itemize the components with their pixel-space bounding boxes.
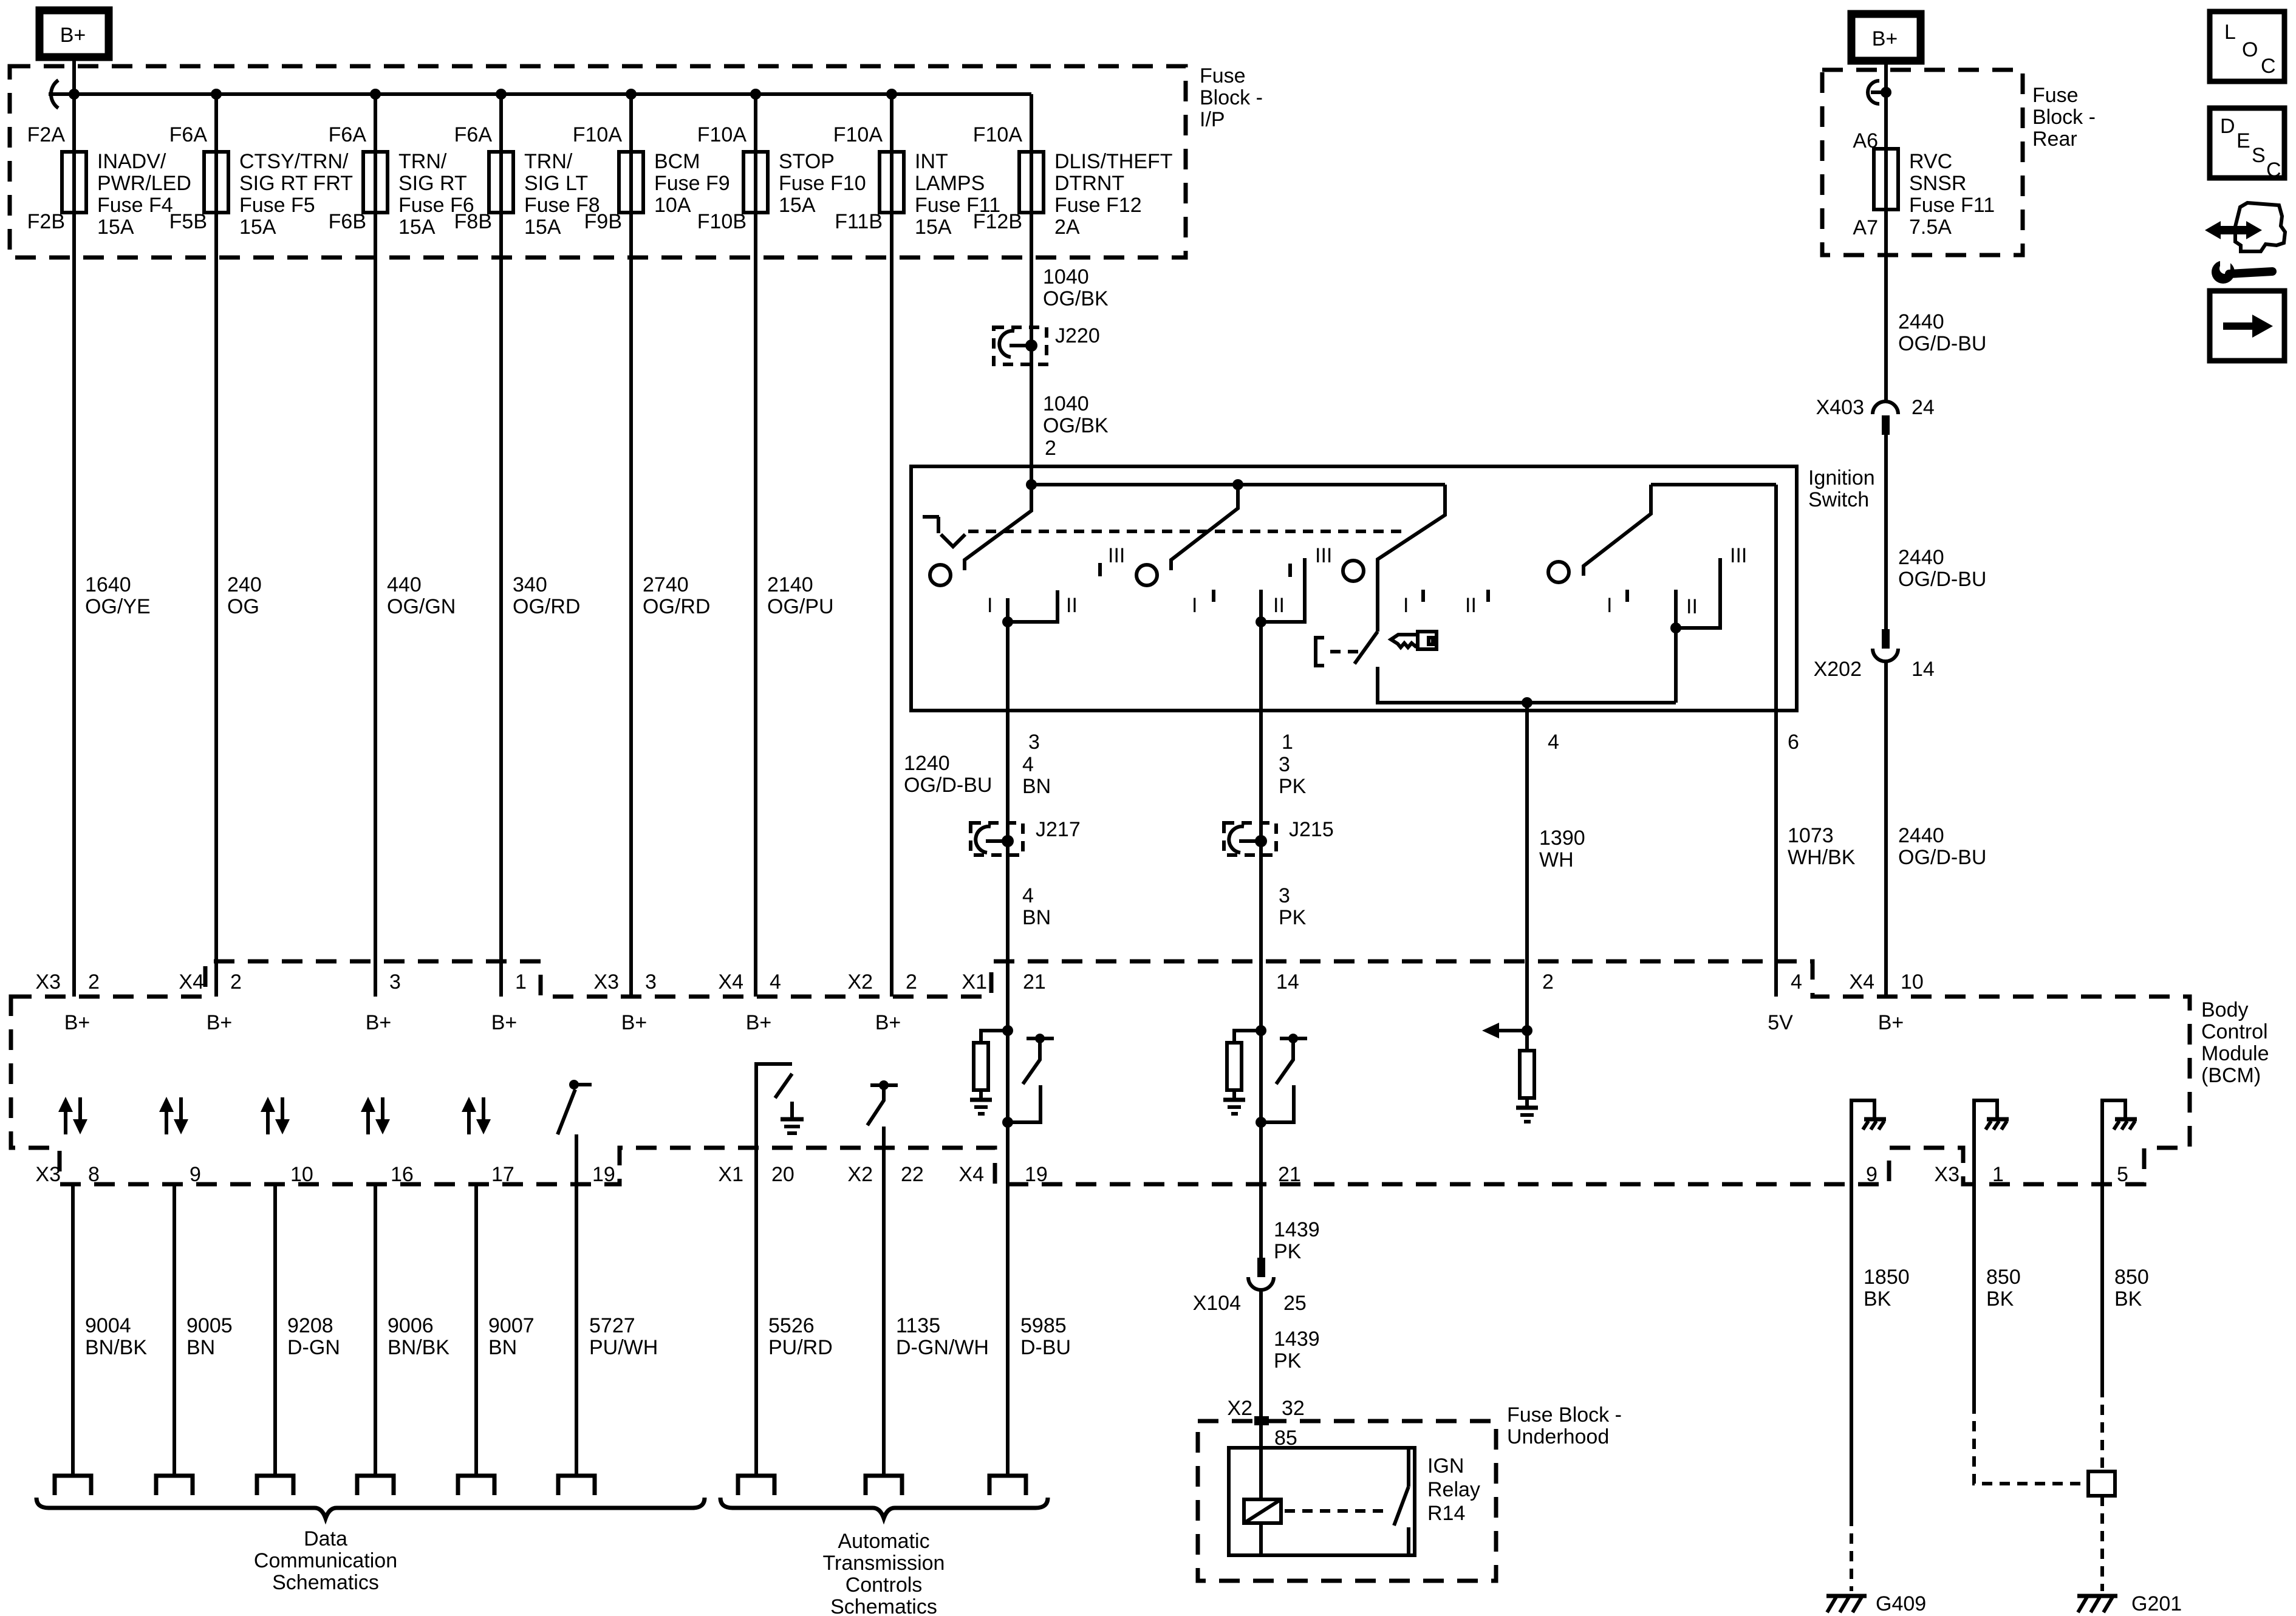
svg-text:F6A: F6A bbox=[329, 123, 367, 146]
svg-text:X4: X4 bbox=[179, 970, 204, 994]
svg-text:22: 22 bbox=[901, 1163, 924, 1186]
ground G409 bbox=[1826, 1592, 1926, 1615]
junction bbox=[626, 89, 637, 100]
terminal (pin 20 wire) bbox=[738, 1476, 774, 1495]
svg-text:2440: 2440 bbox=[1898, 824, 1944, 847]
svg-text:OG/GN: OG/GN bbox=[387, 595, 456, 618]
svg-text:L: L bbox=[2224, 21, 2236, 44]
svg-text:2440: 2440 bbox=[1898, 546, 1944, 569]
wire X403 to X202 bbox=[1884, 435, 1888, 629]
svg-text:F6A: F6A bbox=[454, 123, 493, 146]
svg-text:Body: Body bbox=[2201, 998, 2249, 1021]
svg-text:Fuse F12: Fuse F12 bbox=[1054, 194, 1142, 217]
svg-text:19: 19 bbox=[592, 1163, 615, 1186]
svg-text:F5B: F5B bbox=[169, 210, 207, 233]
svg-text:440: 440 bbox=[387, 573, 422, 596]
svg-text:850: 850 bbox=[1986, 1266, 2021, 1289]
fuse F6 TRN/SIG RT 15A bbox=[329, 123, 474, 239]
svg-text:Schematics: Schematics bbox=[830, 1595, 937, 1616]
svg-text:D-BU: D-BU bbox=[1020, 1336, 1071, 1359]
fuse F8 TRN/SIG LT 15A bbox=[454, 123, 600, 239]
S4 contact I tick bbox=[1625, 590, 1629, 602]
svg-text:X4: X4 bbox=[958, 1163, 984, 1186]
svg-text:X2: X2 bbox=[1227, 1397, 1252, 1420]
dashed continuation pin 5 to splice box bbox=[2100, 1387, 2104, 1471]
svg-text:4: 4 bbox=[1791, 970, 1802, 994]
svg-text:Schematics: Schematics bbox=[272, 1571, 379, 1594]
svg-text:1073: 1073 bbox=[1788, 824, 1834, 847]
rear feed hook bbox=[1868, 81, 1879, 104]
BCM switch above pin 19 bbox=[558, 1080, 592, 1134]
svg-text:B+: B+ bbox=[491, 1011, 518, 1034]
svg-text:G409: G409 bbox=[1876, 1592, 1926, 1615]
svg-text:PU/RD: PU/RD bbox=[768, 1336, 833, 1359]
svg-text:B+: B+ bbox=[366, 1011, 392, 1034]
svg-text:5985: 5985 bbox=[1020, 1314, 1067, 1337]
S4 contact III L bbox=[1676, 558, 1720, 628]
connector X104 pin 25 bbox=[1193, 1258, 1307, 1315]
splice J217 bbox=[971, 818, 1081, 855]
junction bbox=[1256, 616, 1266, 627]
svg-text:Communication: Communication bbox=[254, 1549, 397, 1572]
wire label 3 PK (upper) bbox=[1279, 753, 1307, 798]
B+ power symbol (right) bbox=[1851, 14, 1921, 61]
svg-text:J215: J215 bbox=[1289, 818, 1334, 841]
svg-text:4: 4 bbox=[1022, 753, 1034, 776]
svg-text:14: 14 bbox=[1276, 970, 1299, 994]
svg-text:BN: BN bbox=[186, 1336, 215, 1359]
svg-text:A7: A7 bbox=[1853, 216, 1878, 239]
BCM internal ground above pin X3-1 bbox=[1974, 1100, 2009, 1148]
wire label 2740 OG/RD bbox=[643, 573, 710, 618]
fuse F11 RVC SNSR 7.5A (rear) bbox=[1874, 149, 1995, 239]
ignition pin 6 wire to BCM 4 bbox=[1774, 485, 1778, 997]
svg-text:2: 2 bbox=[1045, 437, 1056, 460]
svg-text:B+: B+ bbox=[1878, 1011, 1904, 1034]
BCM top pin X3-3 bbox=[593, 970, 657, 1034]
svg-text:B+: B+ bbox=[64, 1011, 91, 1034]
wire label 3 PK (lower) bbox=[1279, 884, 1307, 929]
BCM bottom pin X2-22 bbox=[847, 1163, 923, 1186]
S4 top rail to pin 6 bbox=[1651, 483, 1776, 486]
accessory position symbol bbox=[923, 517, 965, 547]
connector X403 pin 24 bbox=[1816, 396, 1935, 435]
wire 9005 BN (pin 9) bbox=[173, 1184, 176, 1475]
svg-text:5727: 5727 bbox=[589, 1314, 635, 1337]
label Ignition Switch bbox=[1808, 466, 1875, 511]
junction bbox=[1002, 616, 1013, 627]
svg-text:5V: 5V bbox=[1768, 1011, 1793, 1034]
svg-text:OG/D-BU: OG/D-BU bbox=[1898, 846, 1986, 869]
svg-text:Fuse F5: Fuse F5 bbox=[239, 194, 315, 217]
switch S1 blade bbox=[965, 485, 1031, 570]
wire 1439 PK (X104 to fuse block underhood X2-32) bbox=[1259, 1290, 1263, 1499]
svg-text:6: 6 bbox=[1788, 731, 1799, 754]
svg-text:B+: B+ bbox=[207, 1011, 233, 1034]
svg-text:OG/RD: OG/RD bbox=[643, 595, 710, 618]
svg-text:9007: 9007 bbox=[488, 1314, 535, 1337]
svg-text:15A: 15A bbox=[779, 194, 816, 217]
svg-text:Data: Data bbox=[304, 1527, 347, 1550]
terminal (pin 19 wire) bbox=[558, 1476, 595, 1495]
wire 9007 BN (pin 17) bbox=[474, 1184, 478, 1475]
junction bbox=[750, 89, 761, 100]
wire label 1390 WH bbox=[1539, 827, 1585, 871]
wire F11 column bbox=[890, 94, 893, 997]
svg-text:OG/BK: OG/BK bbox=[1043, 287, 1109, 310]
svg-text:5: 5 bbox=[2117, 1163, 2128, 1186]
wire B+ to RVC fuse bbox=[1884, 61, 1888, 401]
svg-text:X3: X3 bbox=[1934, 1163, 1959, 1186]
svg-text:7.5A: 7.5A bbox=[1909, 216, 1952, 239]
svg-text:9208: 9208 bbox=[287, 1314, 333, 1337]
fuse F9 BCM 10A bbox=[573, 123, 730, 233]
wire label 2440 OG/D-BU (middle) bbox=[1898, 546, 1986, 591]
wire 1439 PK (pin 21 to X104) bbox=[1259, 997, 1263, 1258]
fuse F4 INADV/PWR/LED 15A bbox=[27, 123, 191, 239]
svg-text:E: E bbox=[2236, 129, 2250, 152]
IGN relay R14 box bbox=[1229, 1448, 1415, 1555]
S2 contact II L bbox=[1261, 558, 1305, 622]
wire F4 column (B+ to BCM X3-2) bbox=[72, 57, 76, 997]
junction (pin 4 tap) bbox=[1522, 697, 1532, 708]
svg-text:OG/BK: OG/BK bbox=[1043, 414, 1109, 437]
wire F8 column bbox=[499, 94, 503, 997]
svg-text:OG/D-BU: OG/D-BU bbox=[1898, 568, 1986, 591]
svg-text:BN: BN bbox=[1022, 775, 1051, 798]
wire label 4 BN (lower) bbox=[1022, 884, 1051, 929]
junction bbox=[370, 89, 381, 100]
wire label 340 OG/RD bbox=[513, 573, 580, 618]
S4 common terminal bbox=[1674, 590, 1678, 628]
junction bbox=[69, 89, 80, 100]
svg-text:PK: PK bbox=[1279, 775, 1307, 798]
svg-text:X4: X4 bbox=[718, 970, 743, 994]
brace Automatic Transmission Controls Schematics bbox=[720, 1498, 1048, 1518]
svg-text:OG/RD: OG/RD bbox=[513, 595, 580, 618]
S4 common drop to rail bbox=[1674, 628, 1678, 703]
BCM data arrows pin 9 bbox=[159, 1097, 188, 1134]
svg-text:F2B: F2B bbox=[27, 210, 65, 233]
svg-text:15A: 15A bbox=[398, 216, 436, 239]
switch S3 key switch arm bbox=[1378, 485, 1445, 632]
svg-text:10: 10 bbox=[1901, 970, 1924, 994]
wire 9006 BN/BK (pin 16) bbox=[374, 1184, 377, 1475]
svg-text:B+: B+ bbox=[875, 1011, 901, 1034]
BCM internal ground above pin 9 bbox=[1851, 1100, 1886, 1148]
pin X2-32 labels bbox=[1227, 1397, 1304, 1420]
svg-text:I: I bbox=[1192, 594, 1197, 617]
relay actuation dashed link bbox=[1285, 1509, 1388, 1513]
BCM top pin 3 bbox=[366, 970, 401, 1034]
S3 position mark I bbox=[1288, 564, 1292, 577]
svg-text:1390: 1390 bbox=[1539, 827, 1585, 850]
wire label 440 OG/GN bbox=[387, 573, 456, 618]
terminal (pin 9 wire) bbox=[156, 1476, 193, 1495]
svg-text:32: 32 bbox=[1282, 1397, 1305, 1420]
svg-text:21: 21 bbox=[1278, 1163, 1301, 1186]
wire label 1073 WH/BK bbox=[1788, 824, 1856, 869]
svg-text:1850: 1850 bbox=[1864, 1266, 1910, 1289]
BCM bottom pin X4-19 bbox=[958, 1163, 1047, 1186]
ignition internal top rail bbox=[1031, 483, 1445, 486]
Fuse Block - Rear dashed box bbox=[1822, 70, 2023, 255]
terminal (pin 17 wire) bbox=[458, 1476, 494, 1495]
svg-text:Automatic: Automatic bbox=[838, 1530, 929, 1553]
svg-text:F6B: F6B bbox=[329, 210, 366, 233]
svg-text:III: III bbox=[1108, 544, 1125, 567]
svg-text:9: 9 bbox=[1866, 1163, 1877, 1186]
svg-text:9004: 9004 bbox=[85, 1314, 131, 1337]
BCM top pin X4-2 bbox=[179, 970, 242, 1034]
svg-text:D-GN: D-GN bbox=[287, 1336, 340, 1359]
svg-text:2: 2 bbox=[1542, 970, 1554, 994]
svg-text:Fuse F11: Fuse F11 bbox=[1909, 194, 1995, 217]
BCM top pin X3-2 bbox=[35, 970, 100, 1034]
svg-text:21: 21 bbox=[1023, 970, 1046, 994]
svg-text:Fuse F10: Fuse F10 bbox=[779, 172, 866, 195]
switch S2 contact circle bbox=[1136, 565, 1157, 585]
svg-text:X403: X403 bbox=[1816, 396, 1864, 419]
svg-text:1: 1 bbox=[1992, 1163, 2004, 1186]
svg-text:Fuse Block -: Fuse Block - bbox=[1507, 1403, 1622, 1427]
svg-text:F2A: F2A bbox=[27, 123, 66, 146]
wire label 1240 OG/D-BU bbox=[904, 752, 992, 797]
svg-text:D-GN/WH: D-GN/WH bbox=[896, 1336, 989, 1359]
svg-text:G201: G201 bbox=[2131, 1592, 2182, 1615]
svg-text:1040: 1040 bbox=[1043, 265, 1089, 288]
svg-text:9006: 9006 bbox=[388, 1314, 434, 1337]
svg-text:I/P: I/P bbox=[1200, 108, 1225, 131]
service icon: double arrow bbox=[2205, 221, 2262, 239]
wire label 1040 OG/BK (upper) bbox=[1043, 265, 1109, 310]
svg-text:PU/WH: PU/WH bbox=[589, 1336, 658, 1359]
svg-text:F10A: F10A bbox=[573, 123, 623, 146]
svg-text:X4: X4 bbox=[1849, 970, 1874, 994]
S2 common terminal bbox=[1259, 590, 1263, 622]
BCM data arrows pin 8 bbox=[58, 1097, 87, 1134]
BCM internal ground above pin 5 bbox=[2102, 1100, 2137, 1148]
svg-text:Block -: Block - bbox=[2032, 106, 2096, 129]
svg-text:SIG RT FRT: SIG RT FRT bbox=[239, 172, 353, 195]
svg-text:Fuse: Fuse bbox=[2032, 84, 2079, 107]
svg-text:X104: X104 bbox=[1193, 1292, 1241, 1315]
wire label 4 BN (upper) bbox=[1022, 753, 1051, 798]
fuse F5 CTSY/TRN/SIG RT FRT 15A bbox=[169, 123, 353, 239]
svg-text:2440: 2440 bbox=[1898, 310, 1944, 333]
svg-text:8: 8 bbox=[88, 1163, 100, 1186]
lock bracket symbol bbox=[1316, 638, 1324, 666]
wire 1850 BK (pin 9 to G409) bbox=[1850, 1142, 1853, 1516]
svg-text:1439: 1439 bbox=[1274, 1218, 1320, 1241]
svg-text:II: II bbox=[1465, 594, 1477, 617]
terminal (pin 22 wire) bbox=[866, 1476, 902, 1495]
svg-text:DLIS/THEFT: DLIS/THEFT bbox=[1054, 150, 1173, 173]
dashed continuation pin 1 to splice box bbox=[1974, 1403, 2088, 1484]
svg-text:OG/D-BU: OG/D-BU bbox=[1898, 332, 1986, 355]
label IGN Relay R14 bbox=[1427, 1454, 1480, 1525]
svg-text:Rear: Rear bbox=[2032, 128, 2077, 151]
svg-text:B+: B+ bbox=[60, 24, 86, 47]
terminal (pin 8 wire) bbox=[55, 1476, 91, 1495]
svg-text:I: I bbox=[1403, 594, 1409, 617]
svg-text:10: 10 bbox=[290, 1163, 313, 1186]
svg-text:TRN/: TRN/ bbox=[524, 150, 573, 173]
LOC reference box bbox=[2210, 12, 2284, 81]
svg-text:PWR/LED: PWR/LED bbox=[97, 172, 191, 195]
B+ bus wire bbox=[49, 92, 1031, 96]
wire 5985 D-BU (pin X4-19) bbox=[1006, 997, 1010, 1475]
svg-text:16: 16 bbox=[391, 1163, 414, 1186]
fuse F12 DLIS/THEFT DTRNT 2A bbox=[973, 123, 1173, 239]
Fuse Block - Underhood dashed box bbox=[1198, 1421, 1496, 1581]
svg-text:BN/BK: BN/BK bbox=[388, 1336, 449, 1359]
svg-text:O: O bbox=[2242, 38, 2258, 61]
wire X202 to BCM X4-10 bbox=[1884, 662, 1888, 997]
wire 5526 PU/RD (pin 20) bbox=[754, 1062, 758, 1475]
BCM bottom pin X1-20 bbox=[718, 1163, 794, 1186]
svg-text:25: 25 bbox=[1283, 1292, 1307, 1315]
svg-text:9: 9 bbox=[190, 1163, 201, 1186]
BCM top pin X2-2 bbox=[847, 970, 917, 1034]
svg-text:OG/D-BU: OG/D-BU bbox=[904, 774, 992, 797]
label Fuse Block - I/P bbox=[1200, 64, 1263, 131]
BCM data arrows pin 17 bbox=[462, 1097, 491, 1134]
S3 lock blade bbox=[1355, 632, 1378, 664]
forward reference arrow box bbox=[2210, 291, 2284, 361]
svg-text:BN/BK: BN/BK bbox=[85, 1336, 147, 1359]
svg-text:F10A: F10A bbox=[833, 123, 883, 146]
svg-text:850: 850 bbox=[2114, 1266, 2149, 1289]
switch S3 contact circle bbox=[1343, 561, 1364, 581]
S3 position mark I bbox=[1421, 590, 1425, 602]
svg-text:20: 20 bbox=[771, 1163, 794, 1186]
rear hook tap bbox=[1871, 90, 1886, 94]
svg-text:Block -: Block - bbox=[1200, 86, 1263, 109]
wire label 2440 OG/D-BU (lower) bbox=[1898, 824, 1986, 869]
svg-text:STOP: STOP bbox=[779, 150, 835, 173]
brace Data Communication Schematics bbox=[36, 1498, 705, 1518]
Ignition Switch box bbox=[911, 466, 1797, 711]
switch S4 contact circle bbox=[1548, 562, 1569, 582]
svg-text:C: C bbox=[2261, 55, 2276, 78]
svg-text:F10B: F10B bbox=[697, 210, 747, 233]
BCM data arrows pin 10 bbox=[261, 1097, 290, 1134]
svg-text:1040: 1040 bbox=[1043, 392, 1089, 415]
switch S4 blade bbox=[1584, 485, 1651, 576]
S2 contact I tick bbox=[1212, 590, 1215, 602]
svg-text:4: 4 bbox=[1548, 731, 1559, 754]
terminal (pin 10 wire) bbox=[257, 1476, 293, 1495]
svg-text:I: I bbox=[987, 594, 993, 617]
wire 5727 PU/WH (pin 19) bbox=[575, 1134, 578, 1475]
BCM pull-up and switch at pin X1-21 / X4-19 bbox=[970, 1025, 1054, 1128]
wire F6 column bbox=[374, 94, 377, 997]
terminal (pin X4-19 wire) bbox=[989, 1476, 1026, 1495]
Body Control Module (BCM) dashed outline bbox=[11, 961, 2190, 1184]
terminal (pin 16 wire) bbox=[357, 1476, 394, 1495]
svg-text:1240: 1240 bbox=[904, 752, 950, 775]
svg-text:B+: B+ bbox=[1872, 27, 1898, 50]
splice J215 bbox=[1224, 818, 1334, 855]
svg-text:2140: 2140 bbox=[767, 573, 813, 596]
svg-text:BK: BK bbox=[1864, 1287, 1891, 1311]
svg-text:X3: X3 bbox=[35, 970, 61, 994]
wire 850 BK (pin 5) bbox=[2100, 1142, 2104, 1387]
svg-text:INADV/: INADV/ bbox=[97, 150, 166, 173]
svg-text:Fuse: Fuse bbox=[1200, 64, 1246, 87]
svg-text:5526: 5526 bbox=[768, 1314, 815, 1337]
svg-text:2A: 2A bbox=[1054, 216, 1080, 239]
splice J220 bbox=[994, 324, 1100, 364]
svg-text:C: C bbox=[2266, 159, 2281, 182]
wire label 2440 OG/D-BU (top) bbox=[1898, 310, 1986, 355]
wire F10 column bbox=[754, 94, 757, 997]
svg-text:X1: X1 bbox=[718, 1163, 743, 1186]
BCM switch above pin X2-22 bbox=[867, 1080, 898, 1125]
svg-text:WH: WH bbox=[1539, 848, 1574, 871]
svg-text:SIG RT: SIG RT bbox=[398, 172, 467, 195]
wire label 1640 OG/YE bbox=[85, 573, 151, 618]
BCM pull-up and switch at pin 14 / 21 bbox=[1223, 1025, 1307, 1128]
wire 850 BK (pin X3-1) bbox=[1972, 1142, 1976, 1403]
svg-text:340: 340 bbox=[513, 573, 547, 596]
ignition pin 4 wire to BCM 2 bbox=[1525, 703, 1529, 997]
BCM top pin X4-4 bbox=[718, 970, 781, 1034]
svg-text:X3: X3 bbox=[593, 970, 619, 994]
svg-text:Fuse F4: Fuse F4 bbox=[97, 194, 173, 217]
junction bbox=[211, 89, 222, 100]
junction bbox=[1881, 87, 1891, 98]
fuse F11 INT LAMPS 15A bbox=[833, 123, 1000, 239]
svg-text:(BCM): (BCM) bbox=[2201, 1064, 2261, 1087]
svg-text:BCM: BCM bbox=[654, 150, 700, 173]
svg-text:Ignition: Ignition bbox=[1808, 466, 1875, 489]
label Fuse Block Underhood bbox=[1507, 1403, 1622, 1448]
switch S1 contact circle bbox=[930, 565, 951, 585]
svg-text:15A: 15A bbox=[915, 216, 952, 239]
wire 9208 D-GN (pin 10) bbox=[273, 1184, 277, 1475]
switch S2 blade bbox=[1171, 485, 1238, 570]
junction bbox=[496, 89, 507, 100]
svg-text:F12B: F12B bbox=[973, 210, 1022, 233]
svg-text:PK: PK bbox=[1274, 1240, 1302, 1263]
svg-text:BN: BN bbox=[1022, 906, 1051, 929]
svg-text:III: III bbox=[1730, 544, 1747, 567]
relay switch blade bbox=[1394, 1487, 1409, 1526]
svg-text:3: 3 bbox=[1028, 731, 1040, 754]
svg-text:15A: 15A bbox=[239, 216, 276, 239]
lock dashed link bbox=[1330, 650, 1363, 653]
svg-text:Fuse F9: Fuse F9 bbox=[654, 172, 730, 195]
wire label 1040 OG/BK (lower) bbox=[1043, 392, 1109, 437]
svg-text:III: III bbox=[1315, 544, 1332, 567]
svg-text:B+: B+ bbox=[746, 1011, 772, 1034]
wire label 2140 OG/PU bbox=[767, 573, 834, 618]
svg-text:SNSR: SNSR bbox=[1909, 172, 1966, 195]
svg-text:DTRNT: DTRNT bbox=[1054, 172, 1124, 195]
svg-text:RVC: RVC bbox=[1909, 150, 1952, 173]
switch S1 contact II L bbox=[1008, 590, 1057, 622]
dashed continuation to G409 bbox=[1850, 1516, 1853, 1591]
svg-text:Transmission: Transmission bbox=[823, 1552, 945, 1575]
pin X2-32 junction marker bbox=[1254, 1416, 1269, 1425]
svg-text:OG/PU: OG/PU bbox=[767, 595, 834, 618]
relay coil bbox=[1244, 1499, 1281, 1523]
svg-text:X1: X1 bbox=[962, 970, 987, 994]
wire 9004 BN/BK (pin 8) bbox=[71, 1184, 75, 1475]
BCM top pin X4-10 bbox=[1849, 970, 1923, 1034]
